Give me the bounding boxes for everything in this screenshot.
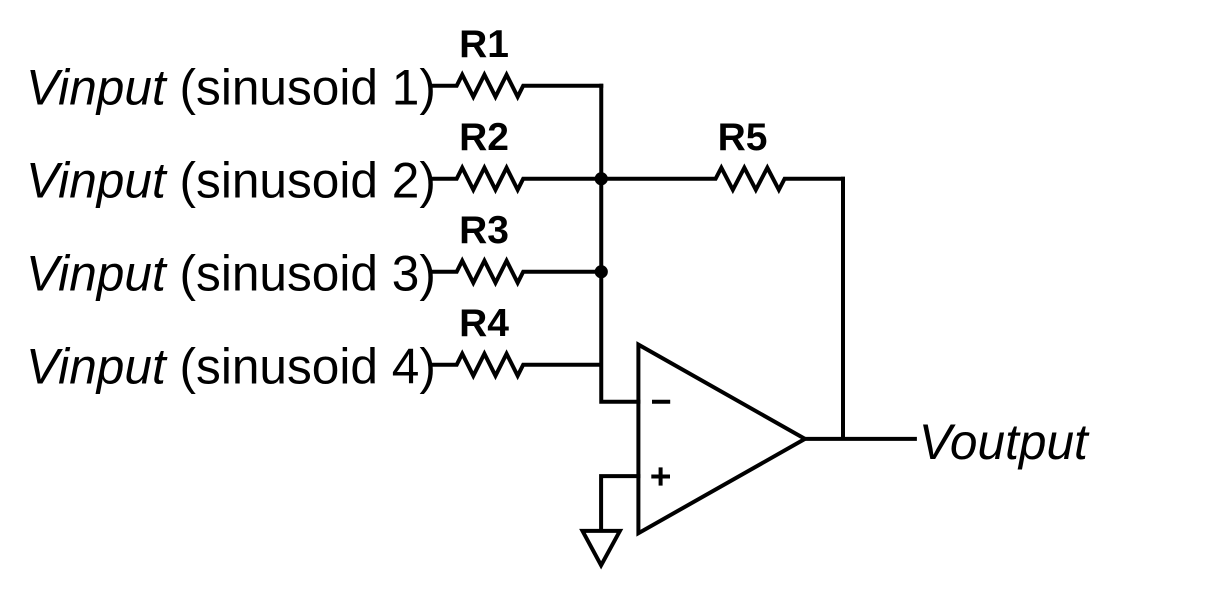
resistor R3: [432, 261, 601, 283]
svg-text:Vinput (sinusoid 3): Vinput (sinusoid 3): [26, 245, 436, 301]
svg-text:R2: R2: [459, 116, 509, 159]
svg-text:Vinput (sinusoid 2): Vinput (sinusoid 2): [26, 152, 436, 208]
svg-text:Vinput (sinusoid 1): Vinput (sinusoid 1): [26, 59, 436, 115]
wire non-inverting input to ground: [601, 476, 640, 533]
svg-text:R5: R5: [718, 116, 768, 159]
node junction dot R2: [595, 172, 608, 185]
wire feedback vertical: [841, 177, 845, 439]
op-amp plus sign: [651, 475, 670, 479]
resistor R1: [432, 75, 603, 97]
svg-text:Vinput (sinusoid 4): Vinput (sinusoid 4): [26, 338, 436, 394]
svg-text:R4: R4: [459, 302, 509, 345]
resistor R5: [601, 168, 845, 190]
resistor R2: [432, 168, 601, 190]
wire summing bus to inverting input: [601, 84, 640, 402]
svg-text:R1: R1: [459, 23, 509, 66]
wire output: [805, 437, 917, 441]
svg-text:R3: R3: [459, 209, 509, 252]
op-amp minus sign: [652, 400, 670, 404]
ground: [583, 531, 620, 565]
svg-text:Voutput: Voutput: [919, 414, 1090, 470]
op-amp U1: [638, 345, 805, 534]
resistor R4: [432, 354, 601, 376]
node junction dot R3: [595, 265, 608, 278]
